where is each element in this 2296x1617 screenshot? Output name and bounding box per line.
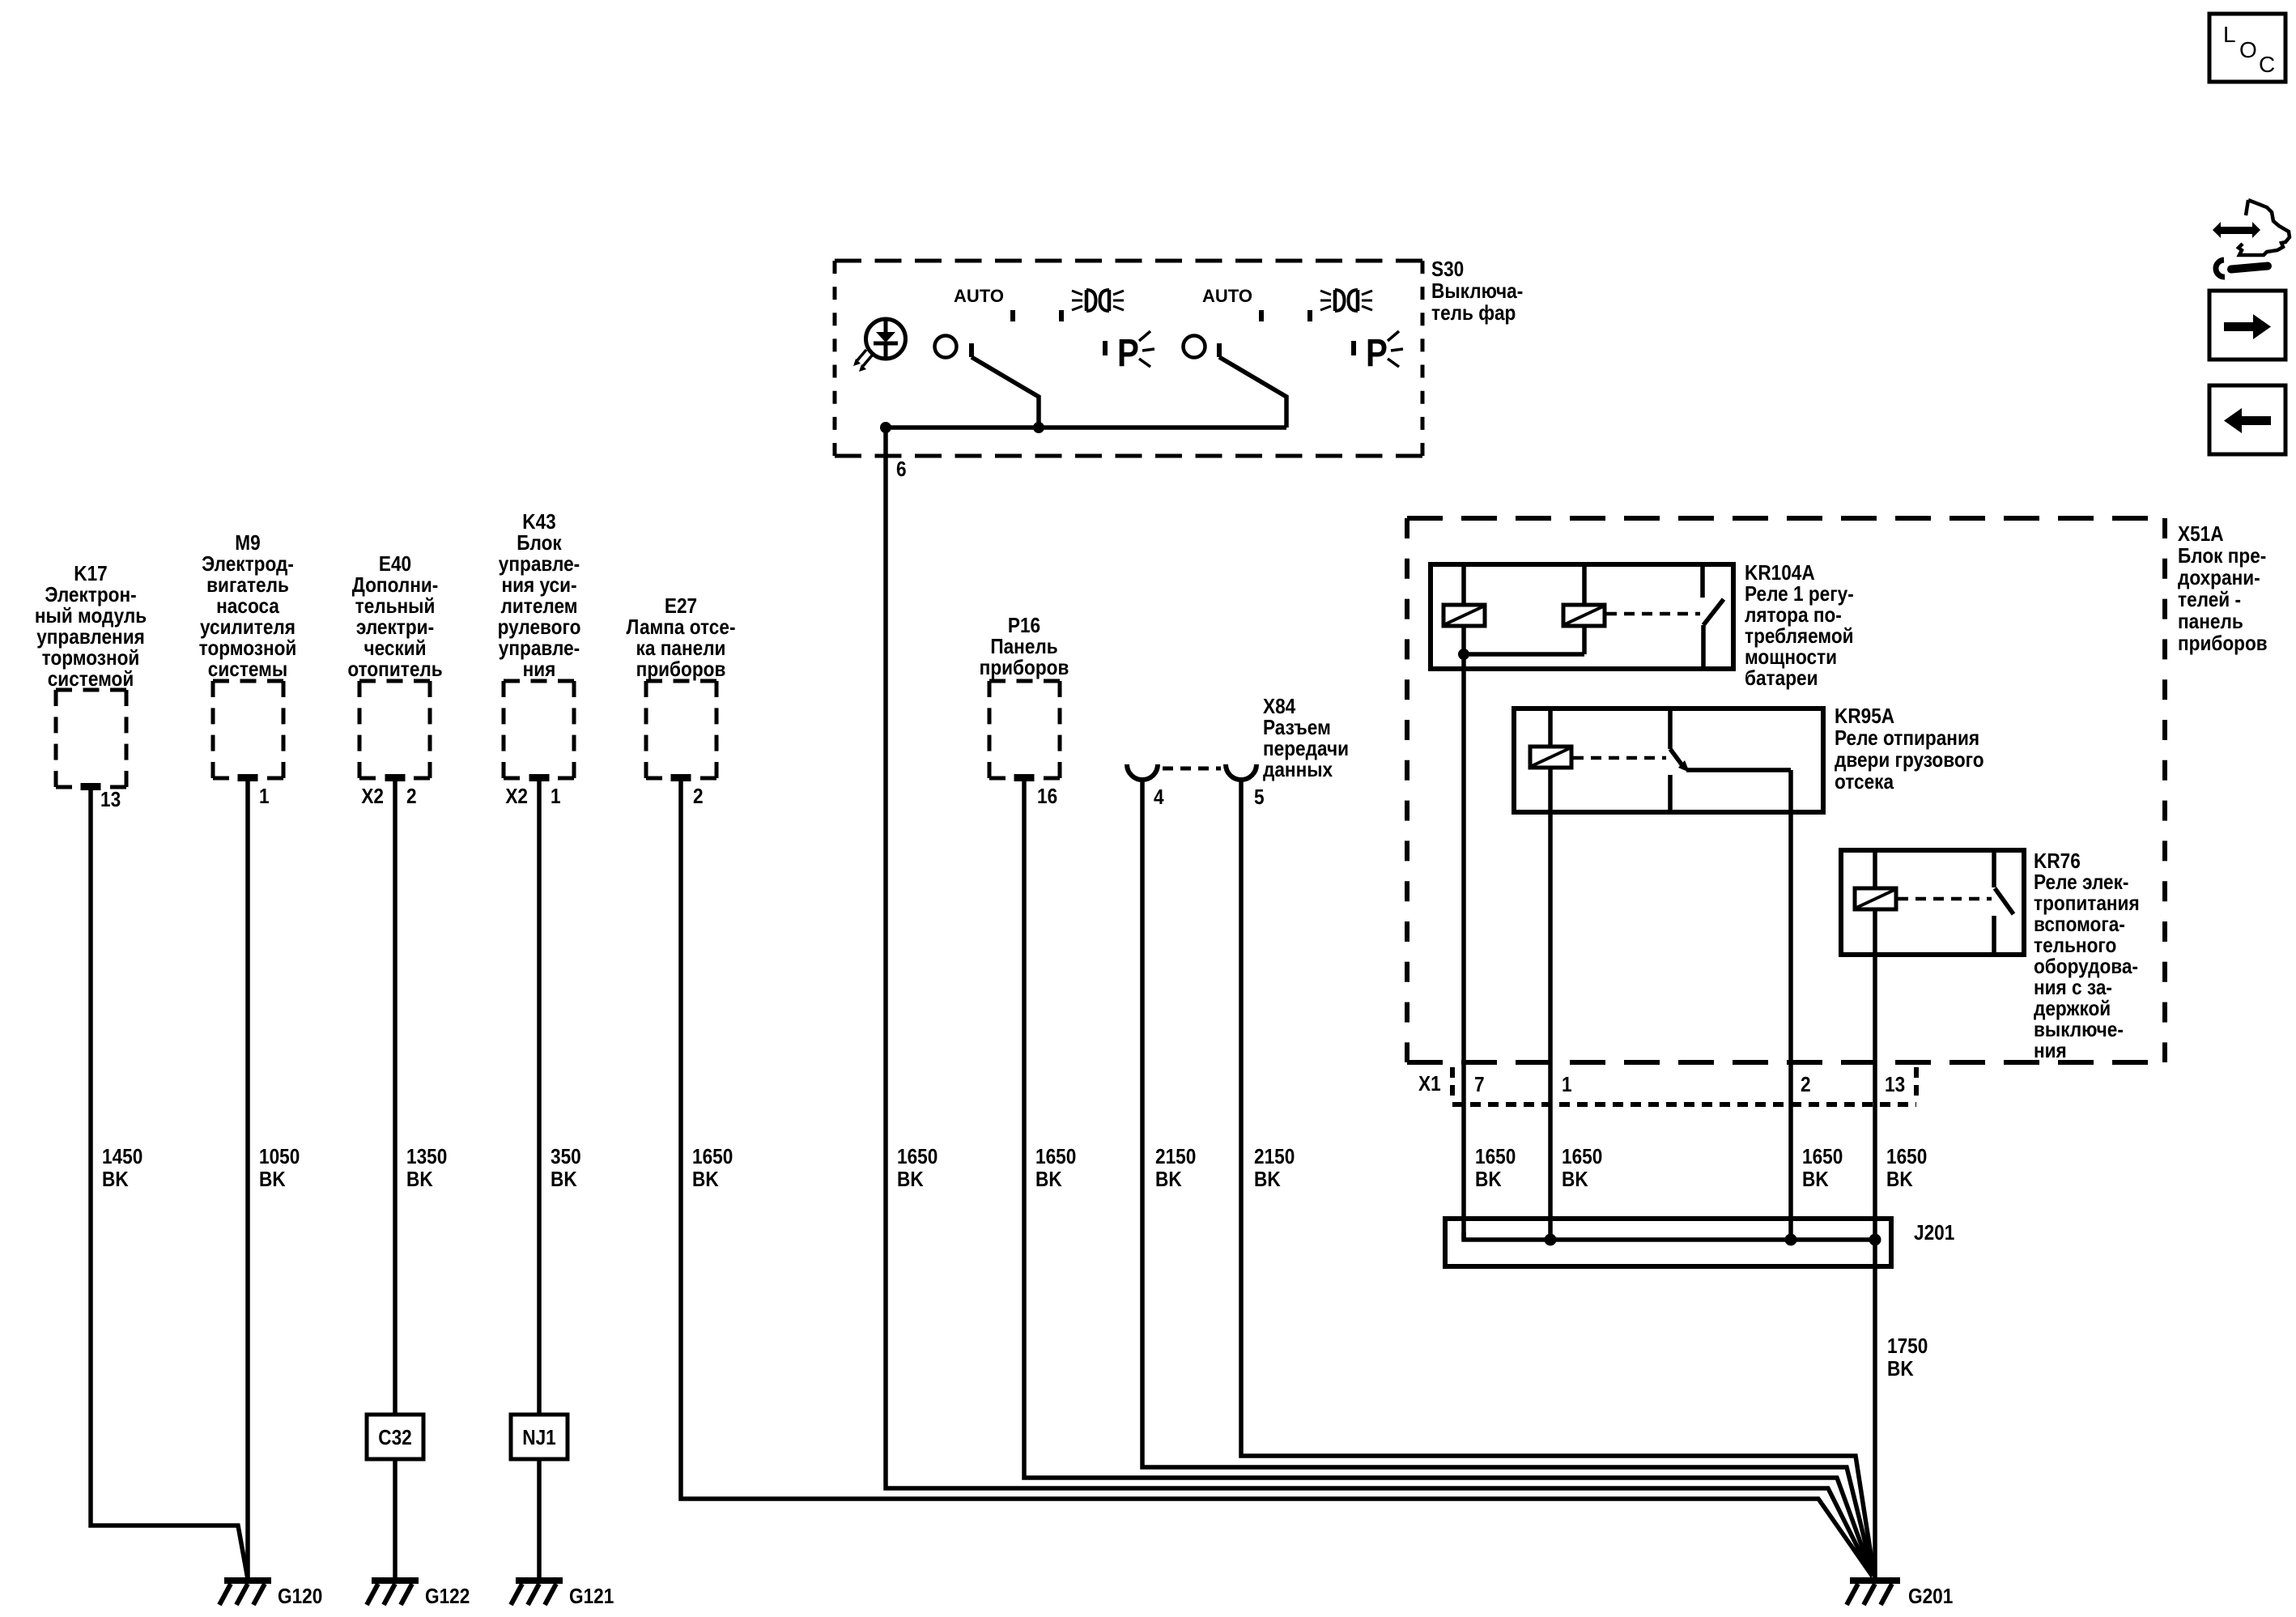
svg-text:отсека: отсека	[1835, 771, 1894, 794]
svg-text:1: 1	[1562, 1074, 1572, 1097]
svg-text:ния уси-: ния уси-	[501, 574, 576, 598]
S30 indicator lamp (LED)	[866, 319, 906, 359]
relay KR104A coil 2	[1563, 605, 1605, 626]
svg-text:G120: G120	[278, 1585, 322, 1609]
service icon wrench	[2216, 260, 2268, 277]
svg-text:приборов: приборов	[980, 657, 1069, 680]
component box K43	[504, 681, 574, 778]
svg-text:AUTO: AUTO	[1202, 286, 1252, 306]
wire K17 to G120 (1450 BK)	[91, 787, 248, 1579]
relay KR104A label	[1745, 562, 1854, 691]
splice NJ1	[511, 1415, 568, 1459]
wire K43 to G121 (350 BK)	[537, 778, 542, 1579]
component E27 instrument panel compartment lamp label	[627, 595, 736, 682]
svg-text:2: 2	[1801, 1074, 1811, 1097]
svg-text:P16: P16	[1008, 615, 1040, 638]
svg-text:BK: BK	[1887, 1358, 1914, 1381]
junction dot KR104A	[1458, 649, 1469, 660]
svg-text:данных: данных	[1263, 759, 1333, 782]
svg-text:G122: G122	[425, 1585, 470, 1609]
svg-text:телей -: телей -	[2178, 589, 2241, 612]
svg-text:13: 13	[1885, 1074, 1905, 1097]
wire label 1050 BK	[259, 1146, 300, 1192]
relay KR76 label	[2034, 850, 2140, 1063]
svg-text:управле-: управле-	[499, 637, 580, 661]
X51A label	[2178, 523, 2268, 656]
S30 parking lamp symbol P (left section)	[1103, 331, 1154, 375]
svg-text:1650: 1650	[1475, 1146, 1516, 1169]
svg-text:K43: K43	[522, 511, 555, 534]
connector X1 right tick	[1914, 1067, 1919, 1096]
wire label 1650 BK (E27)	[692, 1146, 733, 1192]
connector X84 cavity 5 symbol	[1226, 764, 1256, 780]
svg-text:KR95A: KR95A	[1835, 705, 1894, 729]
connector X1 left tick	[1450, 1067, 1455, 1096]
component E40 auxiliary electric heater label	[347, 553, 442, 682]
svg-text:1650: 1650	[1035, 1146, 1076, 1169]
wire label 2150 BK (X84-5)	[1254, 1146, 1295, 1192]
svg-text:ния: ния	[523, 658, 556, 682]
svg-text:двери грузового: двери грузового	[1835, 749, 1984, 772]
svg-text:X2: X2	[361, 785, 384, 809]
wire label 1750 BK	[1887, 1335, 1928, 1381]
svg-text:держкой: держкой	[2034, 998, 2111, 1021]
svg-text:Дополни-: Дополни-	[352, 574, 439, 598]
svg-text:X51A: X51A	[2178, 523, 2224, 547]
svg-text:мощности: мощности	[1745, 646, 1837, 670]
svg-text:C: C	[2259, 52, 2275, 77]
forward arrow box	[2209, 291, 2285, 360]
wire S30 pin6 to G201 (1650 BK)	[886, 428, 1872, 1576]
dashed link between X84 cavities	[1163, 767, 1221, 771]
svg-text:KR104A: KR104A	[1745, 562, 1815, 585]
svg-text:BK: BK	[102, 1168, 129, 1192]
wire X84-5 to G201 (2150 BK)	[1241, 778, 1874, 1576]
svg-text:Реле элек-: Реле элек-	[2034, 871, 2128, 895]
svg-text:X84: X84	[1263, 696, 1296, 719]
wire M9 to G120 (1050 BK)	[245, 778, 250, 1579]
wire X84-4 to G201 (2150 BK)	[1142, 778, 1873, 1576]
wire J201 to G201 (1750 BK)	[1873, 1240, 1877, 1578]
ground G120	[219, 1577, 322, 1608]
ground G121	[511, 1577, 614, 1608]
svg-text:ный модуль: ный модуль	[35, 605, 147, 628]
pin X2-1 of K43	[505, 774, 560, 808]
connector X84 data link connector label	[1263, 696, 1349, 782]
relay KR95A switch with output	[1670, 709, 1791, 812]
svg-text:2: 2	[693, 785, 704, 809]
svg-text:Лампа отсе-: Лампа отсе-	[627, 616, 736, 640]
svg-text:тельного: тельного	[2034, 934, 2116, 958]
connector X84 cavity 4 symbol	[1127, 764, 1158, 780]
relay KR95A switch arrowhead	[1678, 760, 1690, 772]
LED emission arrows	[853, 350, 872, 372]
relay KR95A coil wires	[1548, 709, 1553, 812]
svg-text:1: 1	[259, 785, 270, 809]
svg-text:M9: M9	[235, 532, 260, 555]
svg-text:панель: панель	[2178, 611, 2243, 634]
svg-text:1750: 1750	[1887, 1335, 1928, 1359]
svg-text:BK: BK	[1802, 1168, 1829, 1192]
svg-text:BK: BK	[1475, 1168, 1502, 1192]
svg-text:P: P	[1117, 332, 1139, 375]
wire E40 to G122 (1350 BK)	[393, 778, 398, 1579]
relay KR104A internal wiring	[1464, 564, 1584, 669]
wire label 1650 BK (P16)	[1035, 1146, 1076, 1192]
junction dot S30 bus left	[880, 422, 891, 433]
svg-text:350: 350	[551, 1146, 581, 1169]
svg-text:2150: 2150	[1155, 1146, 1196, 1169]
wire label 1350 BK	[406, 1146, 447, 1192]
S30 left switch contact	[935, 336, 1040, 428]
component box E40	[359, 681, 430, 778]
S30 headlamp symbol (left section)	[1072, 290, 1124, 311]
junction dot J201 pin1	[1545, 1234, 1557, 1246]
wire P16 to G201 (1650 BK)	[1024, 778, 1873, 1576]
component box M9	[213, 681, 283, 778]
svg-text:Электрон-: Электрон-	[45, 584, 136, 607]
svg-text:J201: J201	[1914, 1222, 1954, 1245]
svg-text:P: P	[1366, 332, 1388, 375]
svg-text:G121: G121	[569, 1585, 614, 1609]
pin X2-2 of E40	[361, 774, 416, 808]
wire label 1650 BK (S30)	[897, 1146, 938, 1192]
svg-text:X2: X2	[505, 785, 528, 809]
junction dot J201 pin13	[1869, 1234, 1881, 1246]
ground G122	[367, 1577, 470, 1608]
splice pack J201 box	[1445, 1219, 1891, 1266]
svg-text:1450: 1450	[102, 1146, 142, 1169]
svg-text:Блок: Блок	[517, 532, 562, 555]
svg-text:K17: K17	[74, 563, 107, 586]
pin 16 of P16	[1014, 774, 1058, 808]
relay KR104A switch	[1703, 564, 1724, 669]
svg-text:O: O	[2239, 37, 2257, 62]
svg-text:рулевого: рулевого	[498, 616, 581, 640]
svg-text:BK: BK	[1254, 1168, 1281, 1192]
svg-text:1650: 1650	[1562, 1146, 1602, 1169]
wire label 1450 BK	[102, 1146, 142, 1192]
svg-text:Электрод-: Электрод-	[202, 553, 294, 577]
relay KR95A coil	[1530, 747, 1571, 768]
relay KR95A dashed actuation line	[1573, 756, 1666, 760]
svg-text:KR76: KR76	[2034, 850, 2081, 874]
relay KR76 dashed actuation line	[1898, 897, 1992, 901]
S30 right switch contact	[1184, 336, 1287, 428]
component K43 power steering control module label	[498, 511, 581, 682]
wire E27 to G201 (1650 BK)	[681, 778, 1873, 1577]
svg-text:ческий: ческий	[364, 637, 426, 661]
LOC reference box	[2209, 14, 2285, 82]
S30 label	[1431, 258, 1523, 326]
svg-text:вигатель: вигатель	[206, 574, 289, 598]
component K17 electronic brake control module label	[35, 563, 147, 691]
svg-text:дохрани-: дохрани-	[2178, 567, 2260, 590]
svg-text:тормозной: тормозной	[199, 637, 297, 661]
relay KR104A dashed actuation line	[1606, 612, 1700, 616]
svg-text:1650: 1650	[1802, 1146, 1843, 1169]
S30 internal bus wire	[886, 425, 1286, 430]
svg-text:BK: BK	[1886, 1168, 1913, 1192]
connector X1 dashed line	[1452, 1102, 1916, 1107]
svg-text:C32: C32	[378, 1427, 411, 1450]
svg-text:тельный: тельный	[355, 595, 436, 619]
svg-text:батареи: батареи	[1745, 667, 1818, 691]
svg-text:оборудова-: оборудова-	[2034, 955, 2138, 979]
svg-text:ния: ния	[2034, 1040, 2067, 1063]
svg-text:G201: G201	[1908, 1585, 1953, 1609]
svg-text:BK: BK	[692, 1168, 719, 1192]
relay KR104A box	[1431, 564, 1733, 669]
svg-text:системой: системой	[48, 668, 134, 691]
wire label 350 BK	[551, 1146, 581, 1192]
svg-text:BK: BK	[259, 1168, 286, 1192]
svg-text:2: 2	[406, 785, 417, 809]
svg-text:передачи: передачи	[1263, 738, 1349, 761]
service icon double arrow	[2213, 222, 2260, 238]
svg-text:BK: BK	[1562, 1168, 1588, 1192]
svg-text:S30: S30	[1431, 258, 1464, 282]
backward arrow box	[2209, 385, 2285, 454]
S30 headlamp symbol (right section)	[1320, 290, 1372, 311]
relay KR104A coil 1	[1444, 605, 1485, 626]
svg-text:Разъем: Разъем	[1263, 717, 1331, 740]
svg-text:ка панели: ка панели	[636, 637, 726, 661]
component box E27	[646, 681, 716, 778]
wire X1-7 to J201 (1650 BK)	[1461, 669, 1466, 1240]
svg-text:5: 5	[1254, 786, 1265, 810]
svg-text:NJ1: NJ1	[522, 1427, 555, 1450]
svg-text:2150: 2150	[1254, 1146, 1295, 1169]
svg-text:Реле 1 регу-: Реле 1 регу-	[1745, 583, 1854, 606]
S30 parking lamp symbol P (right section)	[1351, 331, 1403, 375]
svg-text:1: 1	[551, 785, 561, 809]
svg-text:E40: E40	[379, 553, 411, 577]
svg-text:E27: E27	[665, 595, 697, 619]
svg-text:BK: BK	[1035, 1168, 1062, 1192]
svg-text:1650: 1650	[692, 1146, 733, 1169]
svg-text:16: 16	[1037, 785, 1057, 809]
svg-text:BK: BK	[406, 1168, 433, 1192]
component box P16	[989, 681, 1060, 778]
svg-text:тель фар: тель фар	[1431, 302, 1516, 326]
svg-text:13: 13	[100, 789, 121, 812]
junction dot J201 pin2	[1785, 1234, 1797, 1246]
svg-text:1650: 1650	[1886, 1146, 1927, 1169]
J201 bus wire	[1464, 1232, 1877, 1240]
relay KR76 coil wires	[1873, 850, 1877, 955]
svg-text:лятора по-: лятора по-	[1745, 604, 1842, 628]
svg-text:выключе-: выключе-	[2034, 1019, 2124, 1042]
svg-text:управления: управления	[36, 626, 145, 649]
relay KR76 box	[1841, 850, 2024, 955]
svg-text:Панель: Панель	[990, 636, 1057, 659]
relay KR95A label	[1835, 705, 1984, 794]
svg-text:требляемой: требляемой	[1745, 625, 1854, 649]
svg-text:1350: 1350	[406, 1146, 447, 1169]
S30 position ticks (right section)	[1259, 310, 1312, 321]
relay KR76 coil	[1855, 888, 1896, 909]
svg-text:управле-: управле-	[499, 553, 580, 577]
component box K17	[56, 690, 126, 787]
svg-text:4: 4	[1154, 786, 1164, 810]
svg-text:вспомога-: вспомога-	[2034, 913, 2125, 937]
wire X1-1 to J201 (1650 BK)	[1548, 812, 1553, 1240]
svg-text:BK: BK	[551, 1168, 577, 1192]
svg-text:приборов: приборов	[2178, 632, 2268, 656]
svg-text:1650: 1650	[897, 1146, 938, 1169]
junction dot S30 bus middle	[1033, 422, 1044, 433]
component M9 brake booster pump motor label	[199, 532, 297, 682]
wire X1-13 to J201 (1650 BK)	[1873, 955, 1877, 1240]
svg-text:1050: 1050	[259, 1146, 300, 1169]
component P16 instrument panel label	[980, 615, 1069, 680]
svg-text:X1: X1	[1418, 1073, 1441, 1096]
fuse block X51A dashed box	[1407, 518, 2165, 1062]
pin 13 of K17	[81, 783, 121, 811]
relay KR76 switch	[1994, 850, 2013, 955]
switch S30 dashed box	[835, 261, 1422, 456]
svg-text:лителем: лителем	[501, 595, 578, 619]
svg-text:тормозной: тормозной	[42, 647, 140, 670]
pin 2 of E27	[671, 774, 704, 808]
ground G201	[1847, 1577, 1953, 1608]
svg-text:AUTO: AUTO	[954, 286, 1004, 306]
svg-text:6: 6	[896, 458, 907, 482]
wire X1-2 to J201 (1650 BK)	[1788, 812, 1793, 1240]
svg-text:системы: системы	[208, 658, 287, 682]
pin 1 of M9	[238, 774, 270, 808]
svg-text:ния с за-: ния с за-	[2034, 977, 2112, 1000]
svg-text:тропитания: тропитания	[2034, 892, 2140, 916]
svg-text:L: L	[2223, 22, 2236, 47]
svg-text:насоса: насоса	[216, 595, 279, 619]
svg-text:BK: BK	[897, 1168, 924, 1192]
service icon panel outline	[2239, 200, 2290, 255]
svg-text:Выключа-: Выключа-	[1431, 280, 1523, 304]
svg-text:Реле отпирания: Реле отпирания	[1835, 727, 1979, 751]
svg-text:усилителя: усилителя	[200, 616, 296, 640]
svg-text:отопитель: отопитель	[347, 658, 442, 682]
wire label 2150 BK (X84-4)	[1155, 1146, 1196, 1192]
S30 position ticks (left section)	[1010, 310, 1064, 321]
svg-text:Блок пре-: Блок пре-	[2178, 545, 2266, 568]
relay KR95A box	[1514, 709, 1823, 812]
svg-text:7: 7	[1474, 1074, 1485, 1097]
svg-text:электри-: электри-	[356, 616, 434, 640]
splice C32	[367, 1415, 423, 1459]
svg-text:приборов: приборов	[636, 658, 726, 682]
svg-text:BK: BK	[1155, 1168, 1182, 1192]
